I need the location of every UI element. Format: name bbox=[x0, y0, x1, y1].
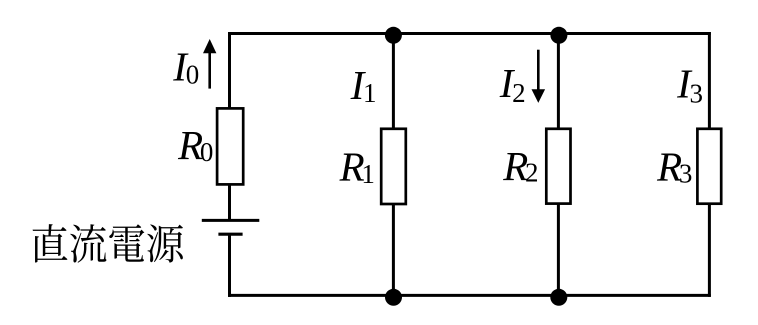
svg-text:R1: R1 bbox=[339, 143, 375, 189]
label I3 bbox=[676, 61, 703, 109]
wire R1 to bottom rail bbox=[392, 205, 395, 296]
wire battery to bottom rail bbox=[228, 234, 231, 297]
wire top rail bbox=[228, 32, 711, 35]
label R0 bbox=[177, 122, 213, 168]
current arrow I0 (upward) bbox=[203, 39, 216, 89]
resistor R0 bbox=[217, 108, 243, 184]
node junction dot top-right (R2 branch) bbox=[550, 27, 567, 44]
svg-text:I2: I2 bbox=[499, 60, 526, 108]
node junction dot bottom-left (R1 branch) bbox=[385, 289, 402, 306]
label R3 bbox=[656, 143, 692, 189]
svg-text:R0: R0 bbox=[177, 122, 213, 168]
svg-text:I3: I3 bbox=[676, 61, 703, 109]
wire R2 branch upper segment bbox=[557, 34, 560, 129]
svg-text:I1: I1 bbox=[350, 62, 377, 108]
svg-text:R3: R3 bbox=[656, 143, 692, 189]
current arrow I2 (downward) bbox=[532, 50, 546, 103]
label DC power source text 直流電源 bbox=[33, 224, 183, 263]
battery positive plate (long) bbox=[202, 219, 259, 222]
resistor R1 bbox=[381, 129, 406, 204]
node junction dot top-left (R1 branch) bbox=[385, 27, 402, 44]
svg-text:I0: I0 bbox=[172, 44, 199, 90]
label I2 bbox=[499, 60, 526, 108]
wire bottom rail bbox=[228, 294, 711, 297]
resistor R2 bbox=[546, 129, 570, 204]
label R1 bbox=[339, 143, 375, 189]
resistor R3 bbox=[697, 129, 721, 204]
svg-text:R2: R2 bbox=[502, 143, 538, 189]
wire left branch upper segment bbox=[228, 32, 231, 108]
label I0 bbox=[172, 44, 199, 90]
battery negative plate (short) bbox=[218, 233, 242, 236]
wire R3 to bottom rail bbox=[708, 205, 711, 297]
label I1 bbox=[350, 62, 377, 108]
wire R2 to bottom rail bbox=[557, 205, 560, 296]
node junction dot bottom-right (R2 branch) bbox=[550, 289, 567, 306]
wire right branch upper segment bbox=[708, 32, 711, 129]
wire R0 to battery bbox=[228, 185, 231, 220]
label R2 bbox=[502, 143, 538, 189]
wire R1 branch upper segment bbox=[392, 34, 395, 129]
